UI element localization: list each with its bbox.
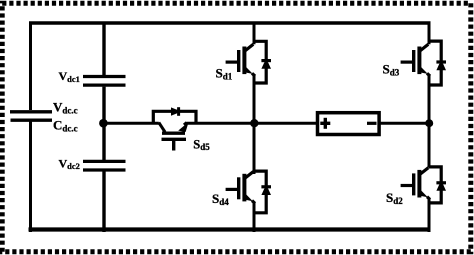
wire: left rail lower segment: [29, 122, 32, 233]
wire: leg B middle (Sd3 emitter to Sd2 collector): [428, 75, 431, 168]
diode D5 (anti-parallel): [153, 107, 196, 123]
wire: middle wire right part: [379, 122, 429, 125]
wire: middle wire centre part (Sd5 emitter to battery): [186, 122, 318, 125]
transistor Sd3 (IGBT): [401, 44, 430, 76]
node: capacitor midpoint junction: [99, 119, 108, 128]
transistor Sd1 (IGBT): [226, 44, 255, 76]
label - terminal: [367, 122, 377, 125]
wire: leg A upper (collector Sd1): [253, 22, 256, 45]
transistor Sd2 (IGBT): [401, 168, 430, 200]
diode D4 (anti-parallel): [254, 171, 271, 213]
diode D2 (anti-parallel): [429, 167, 446, 203]
wire: leg B upper (collector Sd3): [428, 22, 431, 45]
transistor Sd4 (IGBT): [226, 172, 255, 204]
wire: bottom rail: [29, 227, 431, 231]
capacitor Cdc.c plates: [10, 112, 52, 120]
capacitor Vdc2 plates: [83, 161, 126, 170]
capacitor Vdc1 plates: [83, 77, 126, 86]
diode D1 (anti-parallel): [254, 41, 271, 83]
wire: left rail upper segment: [29, 22, 32, 111]
label + terminal: [320, 118, 330, 129]
wire: capacitor leg segment C: [102, 172, 105, 233]
node: phase-leg B junction: [425, 119, 433, 127]
wire: top rail: [29, 21, 431, 24]
wire: capacitor leg segment A: [102, 22, 105, 76]
wire: leg B lower (Sd2 emitter to bottom rail): [428, 199, 431, 233]
node: phase-leg A junction: [250, 119, 258, 127]
transistor Sd5 (horizontal IGBT): [159, 122, 189, 151]
DC source box: [318, 113, 380, 135]
wire: capacitor leg segment B: [102, 87, 105, 160]
wire: middle wire left part: [104, 122, 159, 125]
diode D3 (anti-parallel): [429, 41, 446, 85]
wire: leg A middle (Sd1 emitter to Sd4 collector): [253, 75, 256, 174]
wire: leg A lower (Sd4 emitter to bottom rail): [253, 202, 256, 232]
